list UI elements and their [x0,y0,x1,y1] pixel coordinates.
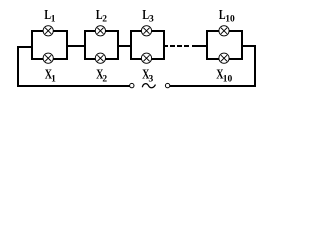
svg-text:10: 10 [225,15,235,25]
svg-text:3: 3 [149,75,154,85]
svg-text:10: 10 [223,75,233,85]
svg-text:2: 2 [102,15,107,25]
svg-text:3: 3 [149,15,154,25]
svg-text:2: 2 [102,75,107,85]
svg-text:1: 1 [51,75,56,85]
svg-text:1: 1 [51,15,56,25]
